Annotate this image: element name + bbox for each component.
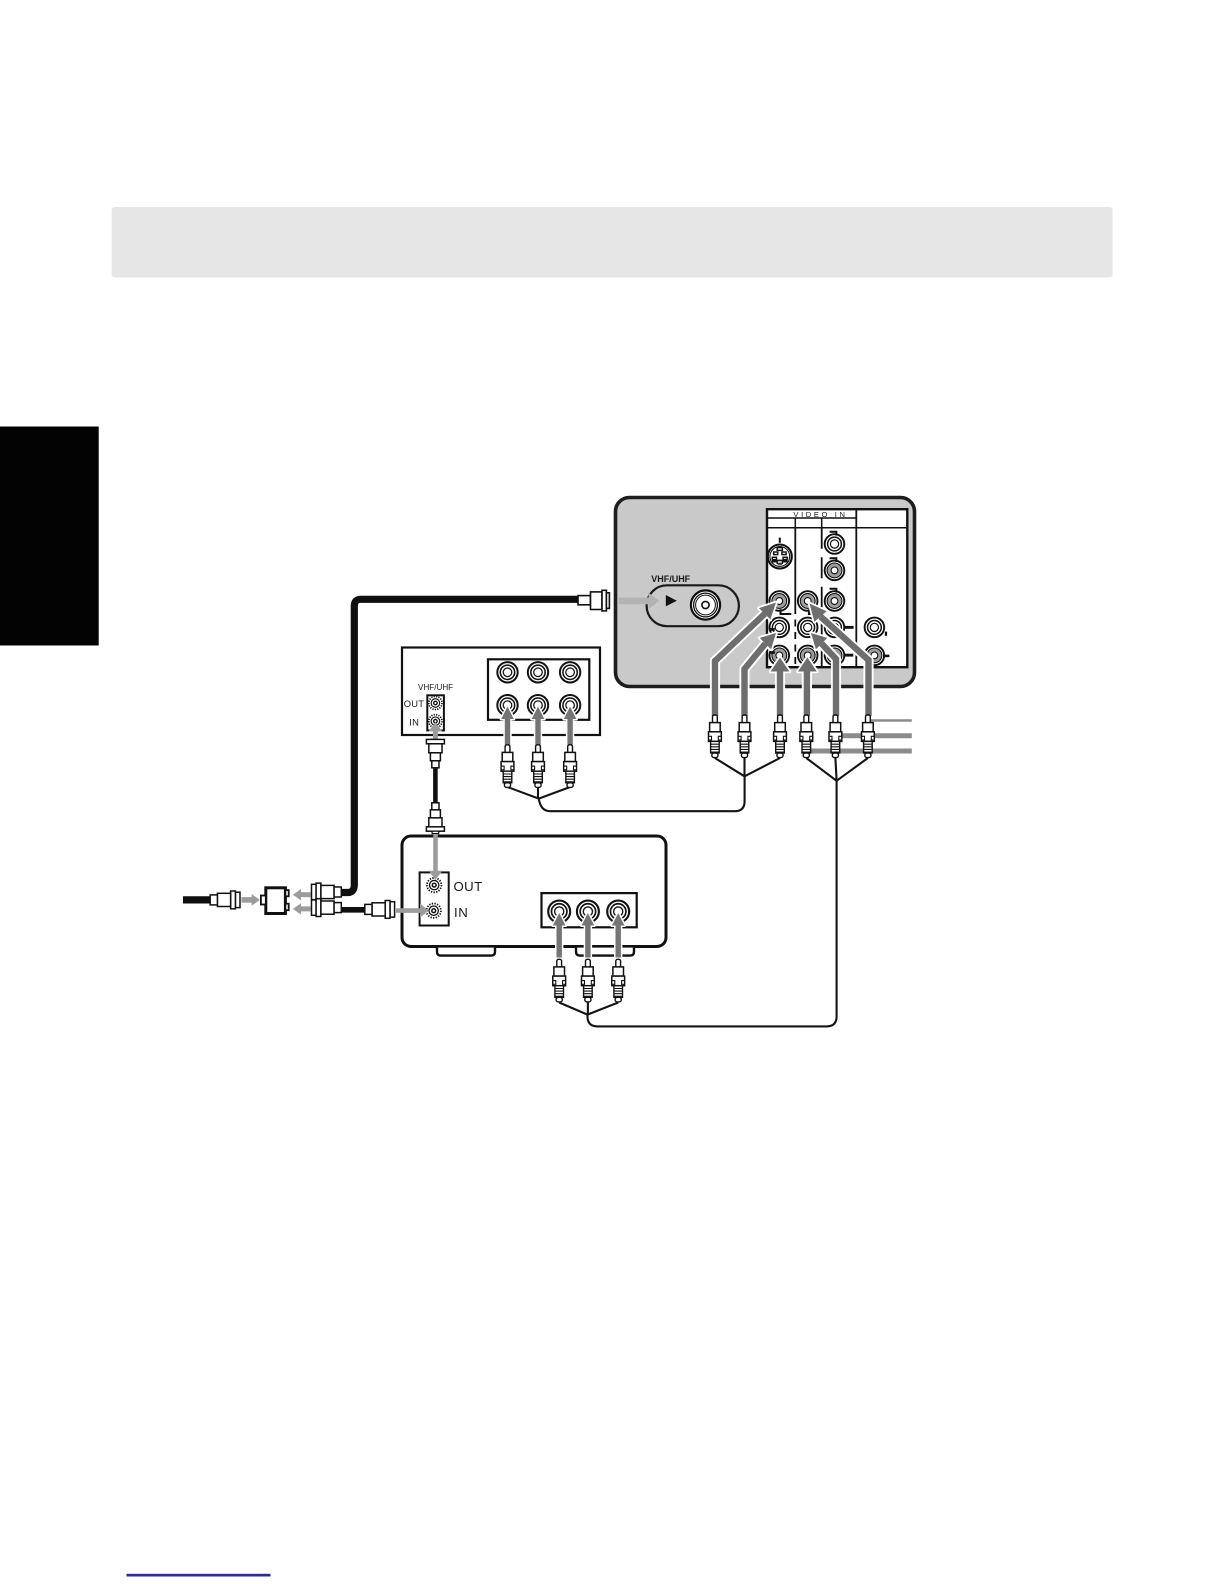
svg-text:VHF/UHF: VHF/UHF bbox=[418, 683, 453, 692]
svg-text:OUT: OUT bbox=[454, 879, 483, 894]
svg-text:VHF/UHF: VHF/UHF bbox=[651, 574, 690, 584]
svg-text:OUT: OUT bbox=[404, 698, 424, 709]
svg-text:IN: IN bbox=[454, 905, 468, 920]
svg-text:IN: IN bbox=[409, 716, 419, 727]
